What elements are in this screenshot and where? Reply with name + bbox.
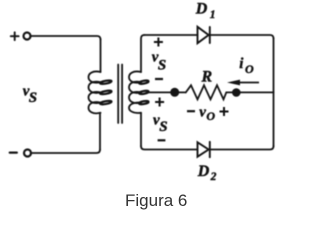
wire resistor to right rail: [226, 91, 273, 93]
wire secondary bottom vertical: [140, 113, 142, 147]
diode D2: [198, 142, 210, 157]
wire secondary top vertical: [141, 35, 145, 72]
wire bottom-left horizontal: [31, 150, 100, 154]
wire top (anode side of D1): [144, 34, 198, 36]
wire top (cathode side of D1): [210, 35, 274, 39]
wire top-left horizontal: [30, 36, 100, 40]
label - (upper winding): [155, 78, 163, 80]
junction dot (cathode node): [232, 88, 241, 97]
wire primary bottom vertical: [99, 113, 101, 150]
svg-text:D: D: [195, 1, 208, 18]
resistor R zigzag: [186, 85, 227, 99]
wire right rail: [273, 38, 275, 147]
minus sign bottom-left: [10, 151, 17, 153]
caption Figura 6: [125, 191, 285, 211]
label + (upper winding): [154, 38, 163, 47]
svg-text:i: i: [239, 56, 244, 72]
transformer core: [118, 65, 122, 124]
transformer primary winding: [89, 71, 112, 113]
svg-text:O: O: [245, 62, 254, 76]
wire tap-dot to resistor: [175, 91, 186, 93]
wire primary top vertical: [100, 39, 102, 72]
label - (lower winding): [158, 139, 166, 141]
svg-text:S: S: [159, 119, 167, 135]
terminal + (top-left): [24, 33, 31, 40]
arrow iO (current, pointing left): [227, 80, 259, 86]
transformer secondary winding: [129, 71, 149, 113]
plus sign top-left: [11, 32, 19, 40]
svg-text:S: S: [158, 58, 166, 74]
junction dot (center tap node): [170, 88, 179, 97]
wire bottom (left of D2): [141, 146, 198, 150]
svg-text:S: S: [29, 90, 37, 106]
svg-text:1: 1: [210, 9, 216, 21]
diode D1: [198, 27, 210, 43]
svg-text:O: O: [206, 109, 215, 123]
terminal - (bottom-left): [24, 150, 31, 157]
svg-text:v: v: [199, 104, 206, 120]
wire bottom (right of D2): [210, 146, 274, 150]
label + (lower winding): [155, 98, 164, 107]
svg-text:D: D: [197, 163, 210, 180]
svg-text:R: R: [201, 69, 213, 86]
svg-text:2: 2: [210, 171, 217, 183]
wire center tap: [147, 91, 175, 93]
label - vO +: [187, 110, 195, 112]
